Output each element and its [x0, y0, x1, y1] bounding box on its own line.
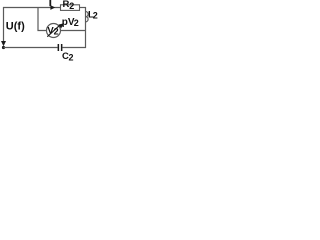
resistor R2: [61, 5, 80, 11]
wire stub from top to meter: [38, 8, 47, 31]
voltage arrowhead U(f): [1, 41, 6, 46]
capacitor C2 plate left: [58, 44, 60, 51]
meter V2 circle: [47, 24, 61, 38]
current tick marker: [49, 0, 51, 6]
svg-text:2: 2: [74, 18, 79, 28]
meter arrowhead: [58, 23, 63, 28]
wire bottom horizontal right: [63, 47, 87, 49]
wire top horizontal: [3, 7, 61, 9]
wire left vertical (voltage arrow stem): [3, 7, 5, 44]
wire bottom horizontal left: [4, 47, 58, 49]
junction node dot: [2, 46, 5, 49]
wire right vertical: [85, 7, 87, 48]
svg-text:2: 2: [54, 27, 59, 37]
svg-text:2: 2: [93, 11, 98, 21]
capacitor C2 plate right: [61, 44, 63, 51]
svg-text:U(f): U(f): [6, 21, 25, 33]
inductor L2: [86, 12, 89, 22]
meter diagonal arrow: [47, 25, 60, 37]
svg-text:2: 2: [69, 1, 74, 11]
current arrow on top wire: [50, 5, 55, 10]
svg-text:2: 2: [69, 52, 74, 61]
wire top right segment: [79, 7, 86, 9]
wire meter to right branch: [61, 30, 86, 32]
